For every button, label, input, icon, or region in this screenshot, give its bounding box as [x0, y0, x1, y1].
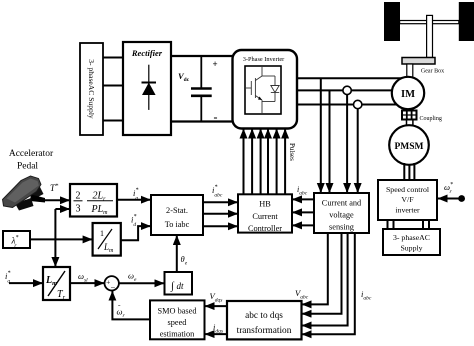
induction machine IM [392, 77, 424, 109]
rectifier diode [142, 65, 157, 110]
SMO speed estimation box [150, 300, 205, 339]
shaft gearbox-IM [407, 64, 413, 78]
sensing tap wire 1 [320, 78, 322, 193]
wire DC bus bottom [171, 120, 233, 122]
sensing output wire ib [302, 233, 355, 334]
svg-text:1: 1 [100, 229, 104, 238]
summing junction [105, 276, 119, 292]
junction node on phase B [343, 86, 351, 94]
lambda_r* box [3, 231, 30, 249]
svg-text:To iabc: To iabc [165, 220, 190, 229]
svg-text:IM: IM [401, 89, 415, 100]
wire omega_e [119, 282, 165, 284]
svg-text:inverter: inverter [395, 206, 420, 215]
pulse wire 4 [267, 129, 269, 195]
torque-to-iq gain box [70, 184, 117, 217]
inverter inner module [245, 66, 281, 114]
wire DC bus top [171, 55, 233, 57]
VF supply connector right [423, 220, 429, 229]
svg-text:estimation: estimation [160, 330, 195, 339]
sensing output wire Vb [302, 233, 342, 314]
svg-text:Supply: Supply [400, 244, 422, 253]
label omega_hat_r [117, 303, 126, 319]
pulse wire 3 [260, 129, 262, 195]
wire iabc feedback 3 [292, 224, 314, 226]
junction node on phase C [354, 100, 362, 108]
wheel right [459, 2, 474, 41]
abc to dqs transformation box [227, 301, 302, 339]
svg-text:-: - [214, 110, 218, 124]
sensing tap wire 4 [357, 105, 359, 194]
wire i*abc 3 [203, 225, 238, 227]
sensing output wire ia [302, 233, 348, 326]
wire T* [44, 199, 70, 201]
wire iq* to 2-Stat [117, 199, 151, 201]
2-Stat to iabc box [151, 195, 203, 235]
wire i*abc 2 [203, 213, 238, 215]
wire supply-rectifier bottom [103, 120, 123, 122]
PMSM lead 3 [413, 163, 415, 180]
svg-text:speed: speed [168, 318, 188, 327]
wire iabc feedback 2 [292, 211, 314, 213]
sensing tap wire 2 [329, 90, 331, 193]
svg-text:abc to dqs: abc to dqs [245, 311, 283, 321]
3-phase AC supply box (VF side) [383, 229, 440, 255]
svg-text:−: − [111, 282, 116, 292]
svg-text:sensing: sensing [329, 223, 354, 232]
freewheel diode [262, 76, 279, 102]
phase wire B [297, 89, 393, 91]
lambda branch stub to gain box [55, 208, 70, 210]
svg-text:+: + [213, 59, 218, 69]
wire Vdqs [205, 305, 227, 307]
pulse wire 5 [276, 129, 278, 195]
svg-text:voltage: voltage [329, 211, 354, 220]
svg-text:dt: dt [177, 281, 185, 291]
svg-text:V/F: V/F [401, 195, 414, 204]
gear box bar [402, 58, 435, 65]
PMSM lead 2 [408, 165, 410, 181]
wire supply-rectifier mid [103, 85, 123, 87]
capacitor Vdc [191, 56, 212, 122]
svg-text:Pedal: Pedal [17, 162, 38, 172]
svg-text:2: 2 [76, 191, 81, 202]
sensing tap wire 3 [346, 90, 348, 193]
sensing output wire Va [302, 233, 328, 304]
pulse wire 2 [251, 129, 253, 195]
3-phase inverter box [233, 50, 298, 129]
drive shaft [427, 15, 433, 57]
svg-text:PMSM: PMSM [394, 142, 423, 152]
wire idqs [205, 333, 227, 335]
svg-text:3: 3 [76, 204, 81, 215]
wire supply-rectifier top [103, 57, 123, 59]
wire theta_e [176, 235, 178, 272]
svg-text:HB: HB [259, 200, 271, 209]
svg-text:Coupling: Coupling [420, 116, 442, 122]
coupling [402, 111, 417, 120]
current and voltage sensing box [314, 193, 369, 233]
svg-text:Controller: Controller [248, 224, 282, 233]
PMSM machine [389, 125, 429, 165]
label Accelerator Pedal [9, 149, 54, 172]
shaft coupling-PMSM [407, 120, 413, 127]
wheel left [384, 2, 400, 41]
HB current controller box [238, 194, 292, 233]
speed control V/F inverter box [378, 180, 437, 220]
rectifier box [123, 42, 171, 135]
pulse wire 1 [243, 129, 245, 195]
svg-text:Current and: Current and [322, 199, 362, 208]
svg-text:3- phaseAC: 3- phaseAC [393, 233, 430, 242]
accelerator pedal icon [3, 176, 46, 211]
omega_r* reference wire [438, 195, 466, 202]
lambda branch vertical wire [54, 209, 56, 267]
axle [400, 21, 459, 24]
wire id* [121, 226, 151, 240]
omega_hat_r feedback wire [112, 291, 150, 320]
wire iq* input [9, 282, 43, 284]
svg-text:3-Phase Inverter: 3-Phase Inverter [243, 56, 285, 63]
svg-text:SMO based: SMO based [158, 307, 198, 316]
svg-text:Rectifier: Rectifier [131, 48, 163, 58]
svg-text:Current: Current [252, 212, 278, 221]
1/Lm box [93, 223, 121, 256]
phase wire A [297, 77, 402, 79]
svg-text:2-Stat.: 2-Stat. [166, 206, 188, 215]
wire iabc feedback 1 [292, 198, 314, 200]
PMSM lead 1 [403, 163, 405, 180]
wire omega_sl [70, 282, 105, 284]
VF supply connector left [388, 220, 394, 229]
phase wire C [297, 104, 398, 106]
shaft IM-coupling [407, 108, 413, 111]
svg-text:Speed control: Speed control [386, 185, 430, 194]
integrator box [165, 272, 193, 295]
Lm/Tr box [43, 267, 70, 301]
svg-text:Gear Box: Gear Box [421, 69, 444, 75]
svg-text:transformation: transformation [237, 325, 292, 336]
svg-text:Accelerator: Accelerator [9, 149, 54, 159]
wire i*abc 1 [203, 201, 238, 203]
IGBT symbol [245, 66, 262, 114]
pulse wire 6 [284, 129, 286, 195]
wire lambda to 1/Lm [30, 238, 93, 240]
3-phase AC supply box (rectifier side) [80, 43, 103, 135]
svg-text:Pulses: Pulses [288, 143, 296, 161]
svg-text:3- phaseAC Supply: 3- phaseAC Supply [87, 59, 96, 119]
